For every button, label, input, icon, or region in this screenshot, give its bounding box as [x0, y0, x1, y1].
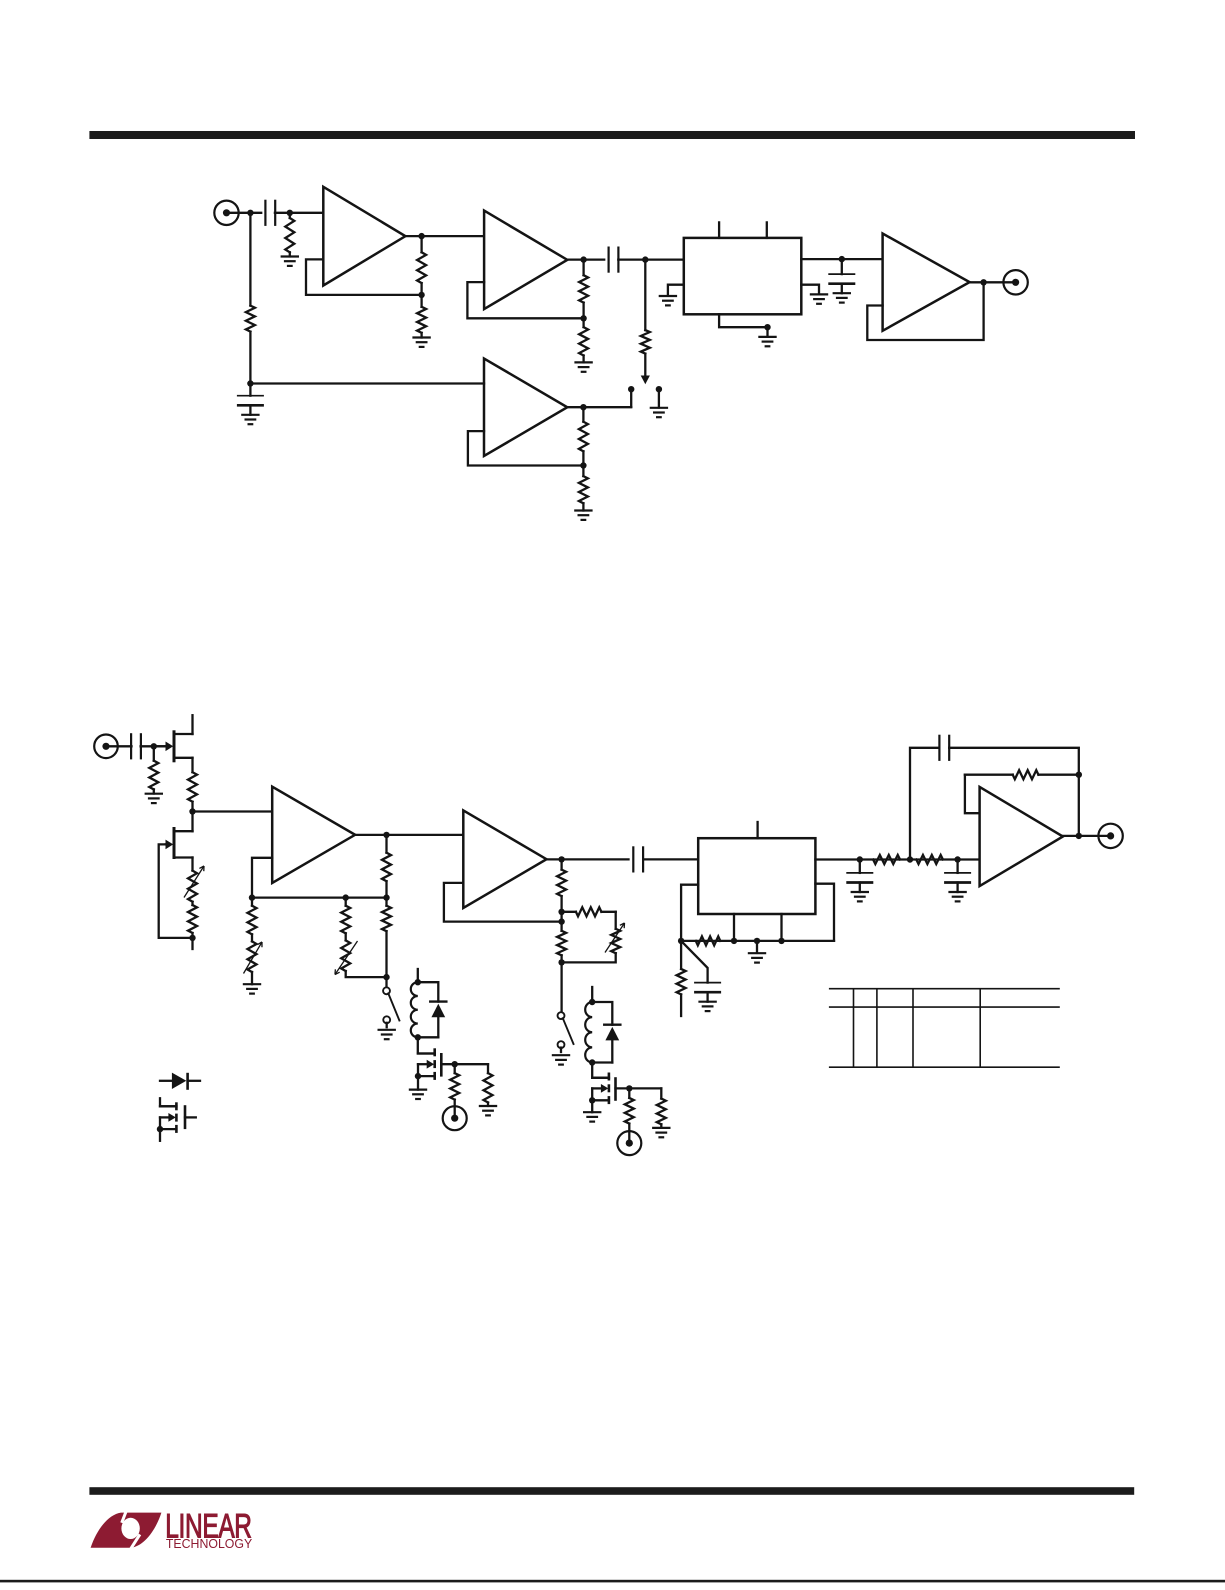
svg-text:TECHNOLOGY: TECHNOLOGY [166, 1537, 253, 1551]
node bus B [731, 938, 737, 944]
module U4 right ground pin [801, 285, 819, 295]
switch S1 left contact [628, 386, 634, 392]
wire C3 to module [618, 258, 684, 260]
legend MOSFET M3 [160, 1098, 176, 1106]
op-amp U2 [484, 211, 567, 310]
module U4 left ground pin [668, 285, 684, 296]
wire M2 source to ground [591, 1100, 593, 1112]
resistor R8 [582, 407, 584, 422]
wire Q1 source [191, 758, 193, 772]
wire [275, 212, 323, 214]
ground [243, 983, 261, 985]
node U1 output [418, 233, 424, 239]
connector J1 input BNC [214, 201, 238, 225]
resistor R15 [251, 898, 253, 906]
node bottom pin [764, 324, 770, 330]
connector J3 input BNC [94, 735, 118, 759]
relay K2 supply stub [591, 987, 593, 1002]
wire U3 feedback [468, 431, 584, 465]
resistor R20 gate pulldown [487, 1064, 489, 1073]
node after C1 [287, 210, 293, 216]
resistor R7 to switch [644, 260, 646, 331]
node bottom-left junction [247, 380, 253, 386]
wire M2 gate [616, 1087, 662, 1089]
bottom rule [0, 1580, 1225, 1583]
wire [106, 745, 132, 747]
resistor R6 [582, 318, 584, 327]
ground [378, 1029, 396, 1031]
wire U6 feedback [252, 858, 272, 898]
module U4 top pin 1 [718, 222, 720, 238]
capacitor C5 [130, 733, 132, 759]
module U8 block [698, 838, 815, 914]
op-amp C U9 [980, 787, 1063, 886]
node K2 bottom [589, 1059, 595, 1065]
ground on bus [756, 941, 758, 953]
node M1 source [415, 1073, 421, 1079]
resistor R9 [582, 466, 584, 477]
connector J6 output BNC [1098, 824, 1122, 848]
node after C5 [151, 743, 157, 749]
ground [574, 361, 592, 363]
node M2 source [589, 1097, 595, 1103]
capacitor C7 to ground [694, 982, 721, 984]
wire gain bus [252, 896, 387, 898]
resistor R4 [420, 295, 422, 307]
resistor R22 [560, 859, 562, 869]
diode D2 catch [592, 1002, 612, 1025]
wire U9 output [1063, 835, 1111, 837]
module U4 block [684, 238, 802, 314]
node K1 top [415, 979, 421, 985]
connector J5 control BNC [617, 1131, 641, 1155]
wire down to Q2 [191, 812, 193, 832]
wire U3 output [567, 406, 631, 408]
wire inverting input stub [965, 775, 980, 814]
logo Linear Technology mark [91, 1509, 162, 1551]
capacitor C8 to ground [859, 860, 861, 873]
variable resistor R12 [188, 871, 197, 902]
op-amp U3 [484, 359, 567, 457]
capacitor C4 to ground [841, 259, 843, 274]
wire bottom bus [681, 940, 834, 942]
node feedback tap [558, 918, 564, 924]
capacitor C2 to ground [249, 384, 251, 396]
node bus left [249, 894, 255, 900]
resistor R13 [191, 902, 193, 905]
node U6 output [383, 832, 389, 838]
switch S3 [558, 1012, 565, 1019]
wire module output [801, 258, 882, 260]
wire C6 to module [643, 858, 698, 860]
wire M1 gate [441, 1063, 488, 1065]
node U8 output [857, 856, 863, 862]
wire to negative supply [191, 938, 193, 949]
connector J2 output BNC [1003, 270, 1027, 294]
wire U1 feedback [306, 259, 422, 295]
JFET Q2 current source [173, 827, 176, 859]
resistor R32 feedback [965, 774, 1013, 776]
ground [412, 336, 430, 338]
wire U1 output [405, 235, 484, 237]
resistor R3 [420, 236, 422, 252]
variable resistor R18 [345, 933, 347, 940]
ground [758, 336, 776, 338]
node filter mid [907, 856, 913, 862]
module U8 bottom pin 2 [780, 914, 782, 941]
MOSFET M1 [433, 1048, 436, 1056]
node M1 gate [452, 1061, 458, 1067]
wire module U8 output [815, 858, 979, 860]
node K1 bottom [415, 1034, 421, 1040]
resistor R1 [289, 213, 291, 218]
ground [574, 509, 592, 511]
node feedback corner [1076, 772, 1082, 778]
wire K1 to M1 drain [418, 1037, 435, 1053]
relay K1 coil [411, 982, 418, 1037]
capacitor C10 series [938, 735, 940, 761]
relay K1 supply stub [417, 969, 419, 982]
node U3 output [580, 404, 586, 410]
node bus right [383, 894, 389, 900]
node gain top [558, 909, 564, 915]
node bus A [678, 938, 684, 944]
capacitor C3 [607, 247, 609, 273]
resistor R14 [385, 835, 387, 853]
resistor R5 [582, 260, 584, 276]
table [829, 988, 1060, 990]
node R3/R4 junction [418, 292, 424, 298]
resistor R23 loop top [562, 911, 576, 913]
variable resistor R16 [248, 941, 257, 972]
wire K2 to M2 drain [592, 1063, 609, 1078]
node bus D [778, 938, 784, 944]
node Q2 bias [189, 935, 195, 941]
node after C3 [642, 256, 648, 262]
wire [385, 977, 387, 988]
wire to switch S3 [560, 962, 562, 1012]
JFET Q1 [173, 730, 176, 762]
ground [583, 1111, 601, 1113]
op-amp U1 [323, 187, 405, 286]
resistor R27 gate series [628, 1088, 630, 1098]
node U7 output [558, 856, 564, 862]
resistor R29 to supply [680, 941, 682, 969]
node filter out [954, 856, 960, 862]
wire U5 output [970, 281, 1016, 283]
wire Q1 drain to supply [191, 715, 193, 734]
ground [409, 1088, 427, 1090]
wire top loop [910, 748, 939, 860]
footer bar [89, 1487, 1134, 1495]
node U9 output [1076, 833, 1082, 839]
ground [479, 1105, 497, 1107]
connector J4 control BNC [443, 1106, 467, 1130]
node K2 top [589, 999, 595, 1005]
op-amp B U7 [463, 810, 546, 908]
ground [652, 1127, 670, 1129]
switch S1 right contact [656, 386, 662, 392]
module U8 top pin [756, 822, 758, 838]
resistor R21 gate series [454, 1064, 456, 1073]
module U8 bottom pin 1 [733, 914, 735, 941]
capacitor C1 [264, 200, 266, 226]
wire U5 feedback [867, 282, 983, 340]
wire Q2 gate loop [159, 844, 193, 938]
module U4 top pin 2 [766, 222, 768, 238]
resistor R17 [345, 898, 347, 906]
node U2 output [580, 256, 586, 262]
resistor R30 [873, 855, 900, 864]
capacitor C9 to ground [956, 860, 958, 873]
variable resistor R24 loop right [615, 912, 617, 929]
wire [346, 971, 387, 977]
wire U2 feedback [467, 282, 583, 318]
ground [145, 793, 163, 795]
relay K2 coil [585, 1002, 592, 1063]
legend diode D3 [160, 1080, 173, 1082]
resistor R2 [249, 213, 251, 306]
node gain bottom [558, 959, 564, 965]
wire to op-amp A [193, 810, 273, 812]
resistor R28 on bus [696, 936, 721, 945]
node R5/R6 junction [580, 315, 586, 321]
MOSFET M2 [608, 1073, 611, 1081]
capacitor C6 series [632, 846, 634, 872]
resistor R19 [385, 898, 387, 906]
wire top loop right [949, 748, 1079, 836]
module U4 bottom pin [719, 314, 767, 327]
wire U6 output [355, 834, 463, 836]
resistor R26 gate pulldown [660, 1088, 662, 1098]
ground [650, 407, 668, 409]
node input junction [247, 210, 253, 216]
wire node to U3 input [250, 382, 484, 384]
node bus mid [343, 894, 349, 900]
ground [281, 255, 299, 257]
node switch S2 top [383, 974, 389, 980]
wire Q2 source [191, 858, 193, 871]
resistor R31 [916, 855, 943, 864]
top rule [89, 131, 1135, 139]
node bus C [754, 938, 760, 944]
diode D1 catch [418, 982, 439, 1001]
wire [227, 212, 262, 214]
switch S2 [383, 987, 390, 994]
node R8/R9 junction [580, 462, 586, 468]
switch S1 wiper arrow [641, 376, 650, 385]
ground [552, 1054, 570, 1056]
node module output [839, 256, 845, 262]
op-amp U5 [883, 234, 970, 331]
module U8 left pin wrap [681, 885, 698, 941]
wire M1 source to ground [417, 1076, 419, 1090]
module U8 right pin wrap [815, 884, 834, 941]
op-amp A U6 [272, 787, 355, 883]
node U5 output [980, 279, 986, 285]
node M2 gate [626, 1085, 632, 1091]
wire U2 output [567, 258, 604, 260]
wire [141, 745, 166, 747]
node Q1 source / U6 input [189, 808, 195, 814]
wire diagonal to C7 [681, 941, 708, 983]
resistor R25 gain mid [560, 922, 562, 931]
resistor R10 [153, 746, 155, 760]
wire [560, 912, 562, 922]
resistor R11 [188, 772, 197, 802]
wire U7 output [547, 858, 629, 860]
wire U7 feedback [444, 883, 562, 922]
